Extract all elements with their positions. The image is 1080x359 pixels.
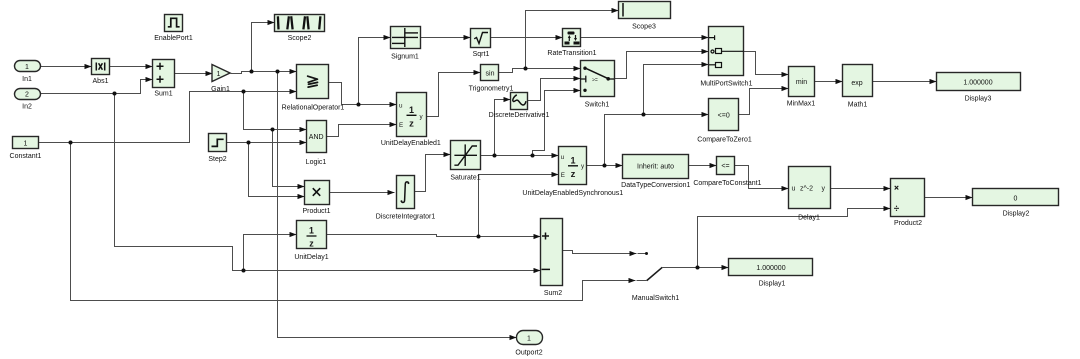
- svg-text:Sum2: Sum2: [544, 290, 562, 297]
- svg-text:Product2: Product2: [894, 220, 922, 227]
- svg-text:In2: In2: [22, 104, 32, 111]
- svg-text:1: 1: [25, 64, 29, 71]
- svg-text:Display3: Display3: [965, 95, 992, 102]
- svg-text:y: y: [822, 186, 826, 193]
- svg-text:MinMax1: MinMax1: [787, 100, 816, 107]
- svg-text:u: u: [399, 103, 403, 110]
- svg-text:Step2: Step2: [208, 156, 226, 163]
- svg-text:In1: In1: [22, 76, 32, 83]
- svg-text:z: z: [309, 238, 314, 248]
- svg-text:CompareToConstant1: CompareToConstant1: [693, 180, 761, 187]
- svg-text:RateTransition1: RateTransition1: [547, 50, 596, 57]
- svg-text:<=0: <=0: [718, 113, 730, 120]
- svg-text:UnitDelayEnabled1: UnitDelayEnabled1: [381, 140, 441, 147]
- svg-text:DiscreteDerivative1: DiscreteDerivative1: [489, 112, 550, 119]
- svg-text:1.000000: 1.000000: [963, 80, 992, 87]
- svg-text:UnitDelay1: UnitDelay1: [294, 254, 328, 261]
- svg-text:Sum1: Sum1: [154, 91, 172, 98]
- svg-text:min: min: [796, 79, 807, 86]
- svg-text:1.000000: 1.000000: [756, 265, 785, 272]
- svg-text:DataTypeConversion1: DataTypeConversion1: [621, 182, 690, 189]
- svg-text:DiscreteIntegrator1: DiscreteIntegrator1: [376, 213, 436, 220]
- svg-text:1: 1: [527, 336, 531, 343]
- svg-text:MultiPortSwitch1: MultiPortSwitch1: [700, 80, 752, 87]
- svg-text:Display2: Display2: [1003, 211, 1030, 218]
- svg-text:E: E: [399, 122, 403, 129]
- svg-text:Outport2: Outport2: [515, 349, 542, 356]
- svg-text:>=: >=: [592, 77, 598, 83]
- svg-text:1: 1: [570, 155, 575, 165]
- svg-text:0: 0: [1014, 196, 1018, 203]
- svg-text:1: 1: [217, 71, 221, 78]
- svg-text:UnitDelayEnabledSynchronous1: UnitDelayEnabledSynchronous1: [522, 190, 623, 197]
- svg-text:Sqrt1: Sqrt1: [473, 51, 490, 58]
- svg-text:Delay1: Delay1: [798, 215, 820, 222]
- svg-text:EnablePort1: EnablePort1: [154, 35, 193, 42]
- svg-text:Logic1: Logic1: [306, 159, 327, 166]
- svg-text:Product1: Product1: [302, 208, 330, 215]
- svg-text:z^-2: z^-2: [800, 186, 813, 193]
- svg-text:Scope3: Scope3: [632, 23, 656, 30]
- svg-text:Inherit: auto: Inherit: auto: [637, 163, 674, 170]
- svg-text:sin: sin: [486, 70, 495, 77]
- svg-text:Trigonometry1: Trigonometry1: [469, 85, 514, 92]
- svg-text:<=: <=: [721, 163, 729, 170]
- svg-text:CompareToZero1: CompareToZero1: [697, 136, 752, 143]
- svg-text:Saturate1: Saturate1: [450, 175, 480, 182]
- svg-text:RelationalOperator1: RelationalOperator1: [282, 105, 345, 112]
- svg-text:Abs1: Abs1: [93, 78, 109, 85]
- svg-text:Constant1: Constant1: [10, 153, 42, 160]
- svg-text:Signum1: Signum1: [391, 54, 419, 61]
- svg-text:E: E: [561, 172, 565, 179]
- svg-text:2: 2: [25, 92, 29, 99]
- svg-text:u: u: [792, 186, 796, 193]
- svg-text:z: z: [409, 118, 414, 129]
- svg-text:AND: AND: [309, 134, 324, 141]
- svg-text:1: 1: [409, 105, 414, 115]
- svg-text:1: 1: [309, 225, 314, 235]
- svg-text:Gain1: Gain1: [211, 86, 230, 93]
- svg-text:z: z: [571, 169, 576, 180]
- svg-text:Display1: Display1: [759, 280, 786, 287]
- svg-text:1: 1: [24, 141, 28, 148]
- svg-text:Switch1: Switch1: [585, 101, 610, 108]
- svg-text:u: u: [561, 154, 565, 161]
- svg-text:Math1: Math1: [848, 101, 868, 108]
- svg-text:ManualSwitch1: ManualSwitch1: [632, 295, 680, 302]
- svg-text:exp: exp: [851, 80, 862, 87]
- svg-text:Scope2: Scope2: [288, 35, 312, 42]
